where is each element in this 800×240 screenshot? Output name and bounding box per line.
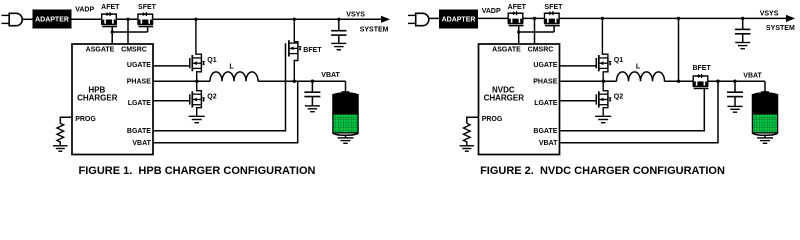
resistor R_PROG <box>57 123 64 145</box>
ground: PROG resistor <box>460 146 475 151</box>
node VADP <box>75 7 94 14</box>
wire: UGATE to Q1 gate <box>153 65 190 67</box>
node VBAT label <box>321 72 340 79</box>
node VSYS rail junction <box>741 17 744 20</box>
caption FIGURE 1 <box>79 165 316 177</box>
svg-text:SYSTEM: SYSTEM <box>360 27 389 34</box>
wire: BFET to battery node <box>708 80 765 82</box>
node VBAT label <box>743 72 762 79</box>
svg-text:VSYS: VSYS <box>346 12 365 19</box>
svg-text:BFET: BFET <box>692 65 711 72</box>
svg-text:Q1: Q1 <box>207 57 216 64</box>
node VADP <box>482 8 501 15</box>
ground: Q2 source <box>595 116 611 122</box>
battery BT2 <box>752 81 777 143</box>
wire: PHASE pin to phase node <box>560 80 617 83</box>
transistor BFET <box>692 65 711 88</box>
svg-text:VADP: VADP <box>482 8 501 15</box>
svg-text:SFET: SFET <box>138 4 157 11</box>
svg-text:SYSTEM: SYSTEM <box>766 25 795 32</box>
svg-text:CHARGER: CHARGER <box>77 93 118 102</box>
transistor AFET <box>508 4 527 44</box>
wire: PROG pin <box>467 117 479 123</box>
node CMSRC junction <box>533 17 536 44</box>
svg-text:PHASE: PHASE <box>533 79 557 86</box>
ground: C_VSYS <box>735 43 750 49</box>
node VSYS / system arrow <box>760 11 795 32</box>
svg-text:CMSRC: CMSRC <box>528 47 554 54</box>
wire: AFET to SFET (CMSRC net) <box>116 18 138 20</box>
svg-text:ADAPTER: ADAPTER <box>442 17 476 24</box>
svg-text:VSYS: VSYS <box>760 11 779 18</box>
transistor SFET <box>137 4 156 32</box>
node VSYS rail junction <box>337 18 340 21</box>
wire: BGATE to BFET gate <box>153 53 286 131</box>
svg-text:SFET: SFET <box>545 4 564 11</box>
battery BT1 <box>333 81 358 143</box>
transistor Q1 <box>190 55 217 71</box>
svg-text:VBAT: VBAT <box>321 72 340 79</box>
inductor L <box>617 63 665 81</box>
wire: top rail SFET to VSYS arrow <box>559 17 787 19</box>
wire: PHASE pin to phase node <box>153 80 210 83</box>
transistor BFET <box>286 18 323 83</box>
svg-text:VBAT: VBAT <box>539 140 558 147</box>
AC plug P1 <box>2 13 33 25</box>
svg-text:UGATE: UGATE <box>533 62 557 69</box>
svg-text:CMSRC: CMSRC <box>121 47 147 54</box>
svg-text:Q2: Q2 <box>207 94 216 101</box>
svg-text:AFET: AFET <box>101 4 120 11</box>
transistor SFET <box>544 4 563 32</box>
wire: LGATE to Q2 gate <box>560 100 597 102</box>
wire: AFET to SFET (CMSRC net) <box>523 17 545 19</box>
wire: system node riser to top rail <box>677 17 680 83</box>
wire: PROG pin <box>60 117 72 123</box>
capacitor C_VBAT <box>727 80 743 107</box>
caption FIGURE 2 <box>480 165 725 177</box>
wire: adapter output / VADP rail <box>478 17 508 19</box>
svg-text:PROG: PROG <box>75 116 96 123</box>
resistor R_PROG <box>463 123 470 145</box>
adapter block ADAPTER <box>33 10 72 29</box>
capacitor C_VSYS <box>331 19 346 43</box>
svg-text:ASGATE: ASGATE <box>86 47 115 54</box>
svg-text:L: L <box>636 63 641 70</box>
adapter block ADAPTER <box>439 10 478 29</box>
wire: Q2 source to ground <box>603 105 608 117</box>
svg-text:FIGURE 1. HPB CHARGER CONFIGU: FIGURE 1. HPB CHARGER CONFIGURATION <box>79 165 316 177</box>
svg-text:LGATE: LGATE <box>128 100 152 107</box>
ground: PROG resistor <box>53 146 68 151</box>
svg-text:ASGATE: ASGATE <box>492 47 521 54</box>
ground: C_VSYS <box>331 43 346 49</box>
wire: adapter output / VADP rail <box>72 18 102 20</box>
svg-text:LGATE: LGATE <box>534 100 558 107</box>
svg-text:Q2: Q2 <box>614 94 623 101</box>
wire: phase node to Q2 drain <box>603 81 608 94</box>
wire: Q1 source to phase node <box>197 68 202 81</box>
wire: LGATE to Q2 gate <box>153 100 190 102</box>
svg-text:UGATE: UGATE <box>127 62 151 69</box>
svg-text:PROG: PROG <box>482 116 503 123</box>
wire: top rail SFET to VSYS arrow <box>153 18 382 20</box>
wire: VBAT pin to battery node <box>153 81 298 143</box>
transistor Q2 <box>596 91 623 107</box>
svg-text:VADP: VADP <box>75 7 94 14</box>
inductor L <box>210 63 258 81</box>
svg-text:AFET: AFET <box>508 4 527 11</box>
svg-text:BGATE: BGATE <box>533 128 557 135</box>
ground: C_VBAT <box>728 106 743 112</box>
transistor Q1 <box>596 55 623 71</box>
charger controller U1 box <box>479 44 560 155</box>
wire: phase node to Q2 drain <box>197 81 202 94</box>
svg-text:Q1: Q1 <box>614 57 623 64</box>
svg-text:VBAT: VBAT <box>132 140 151 147</box>
transistor Q2 <box>190 91 217 107</box>
AC plug P2 <box>408 13 439 25</box>
wire: gate bus AFET/SFET to ASGATE <box>111 30 148 33</box>
svg-text:CHARGER: CHARGER <box>484 93 525 102</box>
wire: gate bus AFET/SFET to ASGATE <box>517 30 554 33</box>
svg-text:ADAPTER: ADAPTER <box>35 17 69 24</box>
node CMSRC junction <box>126 18 129 44</box>
wire: top rail to Q1 drain <box>194 18 201 58</box>
svg-text:FIGURE 2. NVDC CHARGER CONFIG: FIGURE 2. NVDC CHARGER CONFIGURATION <box>480 165 725 177</box>
svg-text:BFET: BFET <box>303 47 322 54</box>
charger controller U1 box <box>72 44 153 155</box>
ground: C_VBAT <box>305 106 320 112</box>
svg-text:BGATE: BGATE <box>127 128 151 135</box>
wire: top rail to Q1 drain <box>601 17 608 58</box>
svg-text:L: L <box>229 63 234 70</box>
wire: BGATE to BFET gate <box>560 89 705 131</box>
wire: inductor to VBAT node <box>258 80 346 82</box>
capacitor C_VSYS <box>735 18 750 42</box>
wire: inductor to BFET <box>665 80 694 82</box>
ground: Q2 source <box>189 116 205 122</box>
wire: Q1 source to phase node <box>603 68 608 81</box>
wire: UGATE to Q1 gate <box>560 65 597 67</box>
wire: Q2 source to ground <box>197 105 202 117</box>
wire: VBAT pin riser <box>560 80 720 143</box>
svg-text:VBAT: VBAT <box>743 72 762 79</box>
svg-text:PHASE: PHASE <box>127 79 151 86</box>
capacitor C_VBAT <box>304 80 320 106</box>
node VSYS / system arrow <box>346 12 390 34</box>
transistor AFET <box>101 4 120 44</box>
